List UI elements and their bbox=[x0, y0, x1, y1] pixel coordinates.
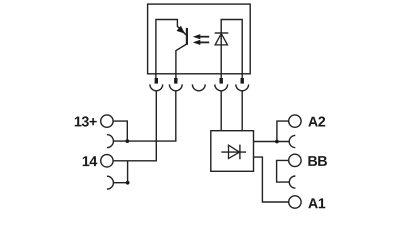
wire: pin1 socket down to terminal 14 line bbox=[113, 91, 156, 161]
pin 1 contact bbox=[155, 78, 158, 84]
wire: A1 to rectifier lower output bbox=[254, 157, 289, 202]
wire: BB jumper bracket to lower socket arc bbox=[277, 160, 290, 182]
wire: 13+ to junction on line A bbox=[113, 121, 127, 141]
wire: pin5 socket to rectifier bbox=[241, 91, 243, 131]
socket arc pin2 bbox=[169, 84, 182, 90]
light arrow 2 head bbox=[193, 40, 201, 45]
junction dot 13+/line A bbox=[125, 139, 129, 143]
terminal circle 14 bbox=[101, 155, 113, 167]
bridge socket arc below BB bbox=[289, 176, 295, 188]
label 13+ bbox=[75, 116, 97, 126]
rectifier block bbox=[211, 131, 254, 172]
pin 2 contact bbox=[174, 78, 177, 84]
wire: drop from 14 line down to lower arc wire bbox=[127, 161, 129, 183]
label A2 bbox=[308, 117, 325, 127]
terminal circle A2 bbox=[289, 115, 301, 127]
LED D1 cathode bar bbox=[215, 32, 229, 34]
socket arc pin1 bbox=[150, 84, 163, 90]
diode D2 triangle bbox=[229, 145, 240, 158]
junction dot lower arc bbox=[126, 181, 130, 185]
wire: pin1 up, top rail, down to phototransistor collector lead bbox=[156, 20, 185, 79]
wire: lower arc to junction bbox=[113, 182, 127, 184]
label BB bbox=[308, 156, 327, 166]
terminal circle 13+ bbox=[101, 115, 113, 127]
wire: rectifier output to A2 socket arc bbox=[254, 141, 290, 143]
bridge socket arc below A2 bbox=[289, 135, 295, 147]
light arrow 2 tail bbox=[199, 41, 209, 43]
wire: pin2 socket down to line A bbox=[113, 91, 175, 141]
optocoupler U1 package outline bbox=[148, 4, 251, 74]
LED D1 triangle bbox=[215, 34, 227, 45]
wire: A2 down to junction bbox=[277, 121, 289, 141]
socket arc pin3 (empty) bbox=[192, 84, 205, 90]
label A1 bbox=[308, 198, 325, 208]
bridge socket arc below 14 bbox=[107, 176, 114, 189]
diode D2 lead wire bbox=[221, 151, 246, 153]
label 14 bbox=[83, 156, 98, 166]
pin 4 contact bbox=[220, 78, 223, 84]
terminal circle A1 bbox=[289, 196, 301, 208]
junction dot A2 bbox=[275, 140, 279, 144]
transistor T1 collector arrowhead bbox=[177, 26, 186, 34]
pin 5 contact bbox=[241, 78, 244, 84]
wire: pin4 socket to rectifier bbox=[220, 91, 222, 131]
diode D2 cathode bar bbox=[239, 145, 241, 160]
wire: transistor emitter lead down to pin2 bbox=[176, 44, 187, 78]
LED D1 branch wire: pin4 up, top rail, down to pin5 bbox=[221, 20, 242, 79]
socket arc pin5 bbox=[236, 84, 249, 90]
bridge socket arc below 13+ bbox=[107, 135, 114, 148]
light arrow 1 tail bbox=[199, 36, 209, 38]
transistor T1 base bar bbox=[186, 28, 188, 45]
socket arc pin4 bbox=[215, 84, 228, 90]
light arrow 1 head bbox=[193, 34, 201, 39]
wire: arrowhead lead to base bar bbox=[184, 33, 187, 36]
terminal circle BB bbox=[289, 154, 301, 166]
